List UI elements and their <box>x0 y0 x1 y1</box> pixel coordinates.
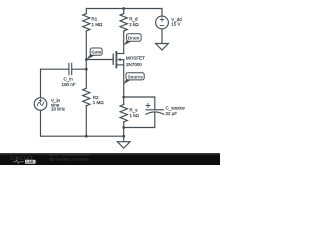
svg-text:R2: R2 <box>93 95 99 100</box>
resistor R_d <box>120 14 127 31</box>
wire bottom rail <box>41 135 124 137</box>
svg-text:Author : commonSourceAC: Author : commonSourceAC <box>49 153 91 157</box>
wire C_source bottom <box>124 112 155 128</box>
svg-text:15 V: 15 V <box>171 22 180 27</box>
resistor R_s <box>120 105 127 122</box>
transistor M1 source stub <box>117 64 124 66</box>
wire V_in bottom <box>40 110 42 136</box>
wire ground stub bottom right <box>123 136 125 142</box>
wire R_s bottom <box>123 122 125 136</box>
svg-text:1 MΩ: 1 MΩ <box>92 22 104 27</box>
svg-text:10 kHz: 10 kHz <box>51 107 66 112</box>
V_in sine glyph <box>37 102 44 106</box>
logo CircuitLab <box>10 153 91 164</box>
svg-text:C_source: C_source <box>166 106 186 111</box>
node bottom rail R2 <box>85 135 88 138</box>
wire R_d top lead <box>123 9 125 14</box>
flag Drain <box>124 34 141 46</box>
svg-text:R_s: R_s <box>130 108 139 113</box>
transistor M1 body arrow <box>117 58 121 61</box>
svg-text:2 kΩ: 2 kΩ <box>129 22 139 27</box>
svg-text:LAB: LAB <box>26 160 34 164</box>
transistor M1 gate bar <box>112 54 114 64</box>
capacitor C_in wires <box>41 68 87 70</box>
wire V_dd to ground <box>161 29 163 44</box>
node R_s / C_source bottom junction <box>122 126 125 129</box>
ground GND2 (bottom) <box>117 142 130 149</box>
flag Source <box>124 73 145 85</box>
source V_dd circle <box>156 16 169 29</box>
node top-rail/R_d junction <box>122 7 125 10</box>
V_dd minus mark <box>160 25 164 27</box>
svg-text:1 kΩ: 1 kΩ <box>130 113 140 118</box>
wire V_in top <box>40 69 42 98</box>
svg-text:Drain: Drain <box>128 36 140 41</box>
node source junction <box>122 96 125 99</box>
wire R_d bottom to drain <box>123 31 125 54</box>
resistor R2 <box>83 88 90 105</box>
wire R2 bottom to rail <box>85 106 87 137</box>
transistor M1 body stub <box>120 59 124 61</box>
resistor R1 <box>83 14 90 31</box>
capacitor C_in plates <box>69 63 72 74</box>
label R1 value <box>51 17 185 118</box>
svg-text:2N7000: 2N7000 <box>126 62 142 67</box>
transistor M1 channel segments <box>115 52 117 67</box>
transistor M1 drain stub <box>117 53 124 55</box>
svg-text:1 MΩ: 1 MΩ <box>93 100 105 105</box>
V_in plus mark <box>39 99 42 102</box>
source V_in circle <box>34 98 47 111</box>
wire source node to R_s <box>123 97 125 105</box>
ground GND1 (under V_dd) <box>156 44 169 51</box>
svg-text:C_in: C_in <box>64 77 74 82</box>
capacitor C_source plus mark <box>146 104 150 108</box>
svg-text:Gate: Gate <box>91 50 102 55</box>
wire C_source top <box>124 97 155 110</box>
svg-text:Source: Source <box>128 74 144 79</box>
wire source vertical <box>123 60 125 97</box>
svg-text:100 nF: 100 nF <box>62 82 76 87</box>
node bottom rail right <box>122 135 125 138</box>
svg-text:http://circuitlab.com/c/baky7v: http://circuitlab.com/c/baky7v <box>49 157 90 161</box>
capacitor C_source top plate <box>146 109 164 111</box>
wire top rail <box>86 9 162 17</box>
V_dd plus mark <box>160 18 164 22</box>
flag Gate <box>86 48 102 60</box>
svg-text:22 µF: 22 µF <box>166 111 178 116</box>
wire gate horizontal <box>86 59 113 61</box>
node C_in junction <box>85 68 88 71</box>
svg-text:MOSFET: MOSFET <box>126 55 145 60</box>
capacitor C_source bottom arc <box>146 112 164 114</box>
footer bar <box>0 154 220 166</box>
node gate junction <box>85 58 88 61</box>
wire R1 bottom to gate node and down to C_in node and R2 <box>85 31 87 88</box>
